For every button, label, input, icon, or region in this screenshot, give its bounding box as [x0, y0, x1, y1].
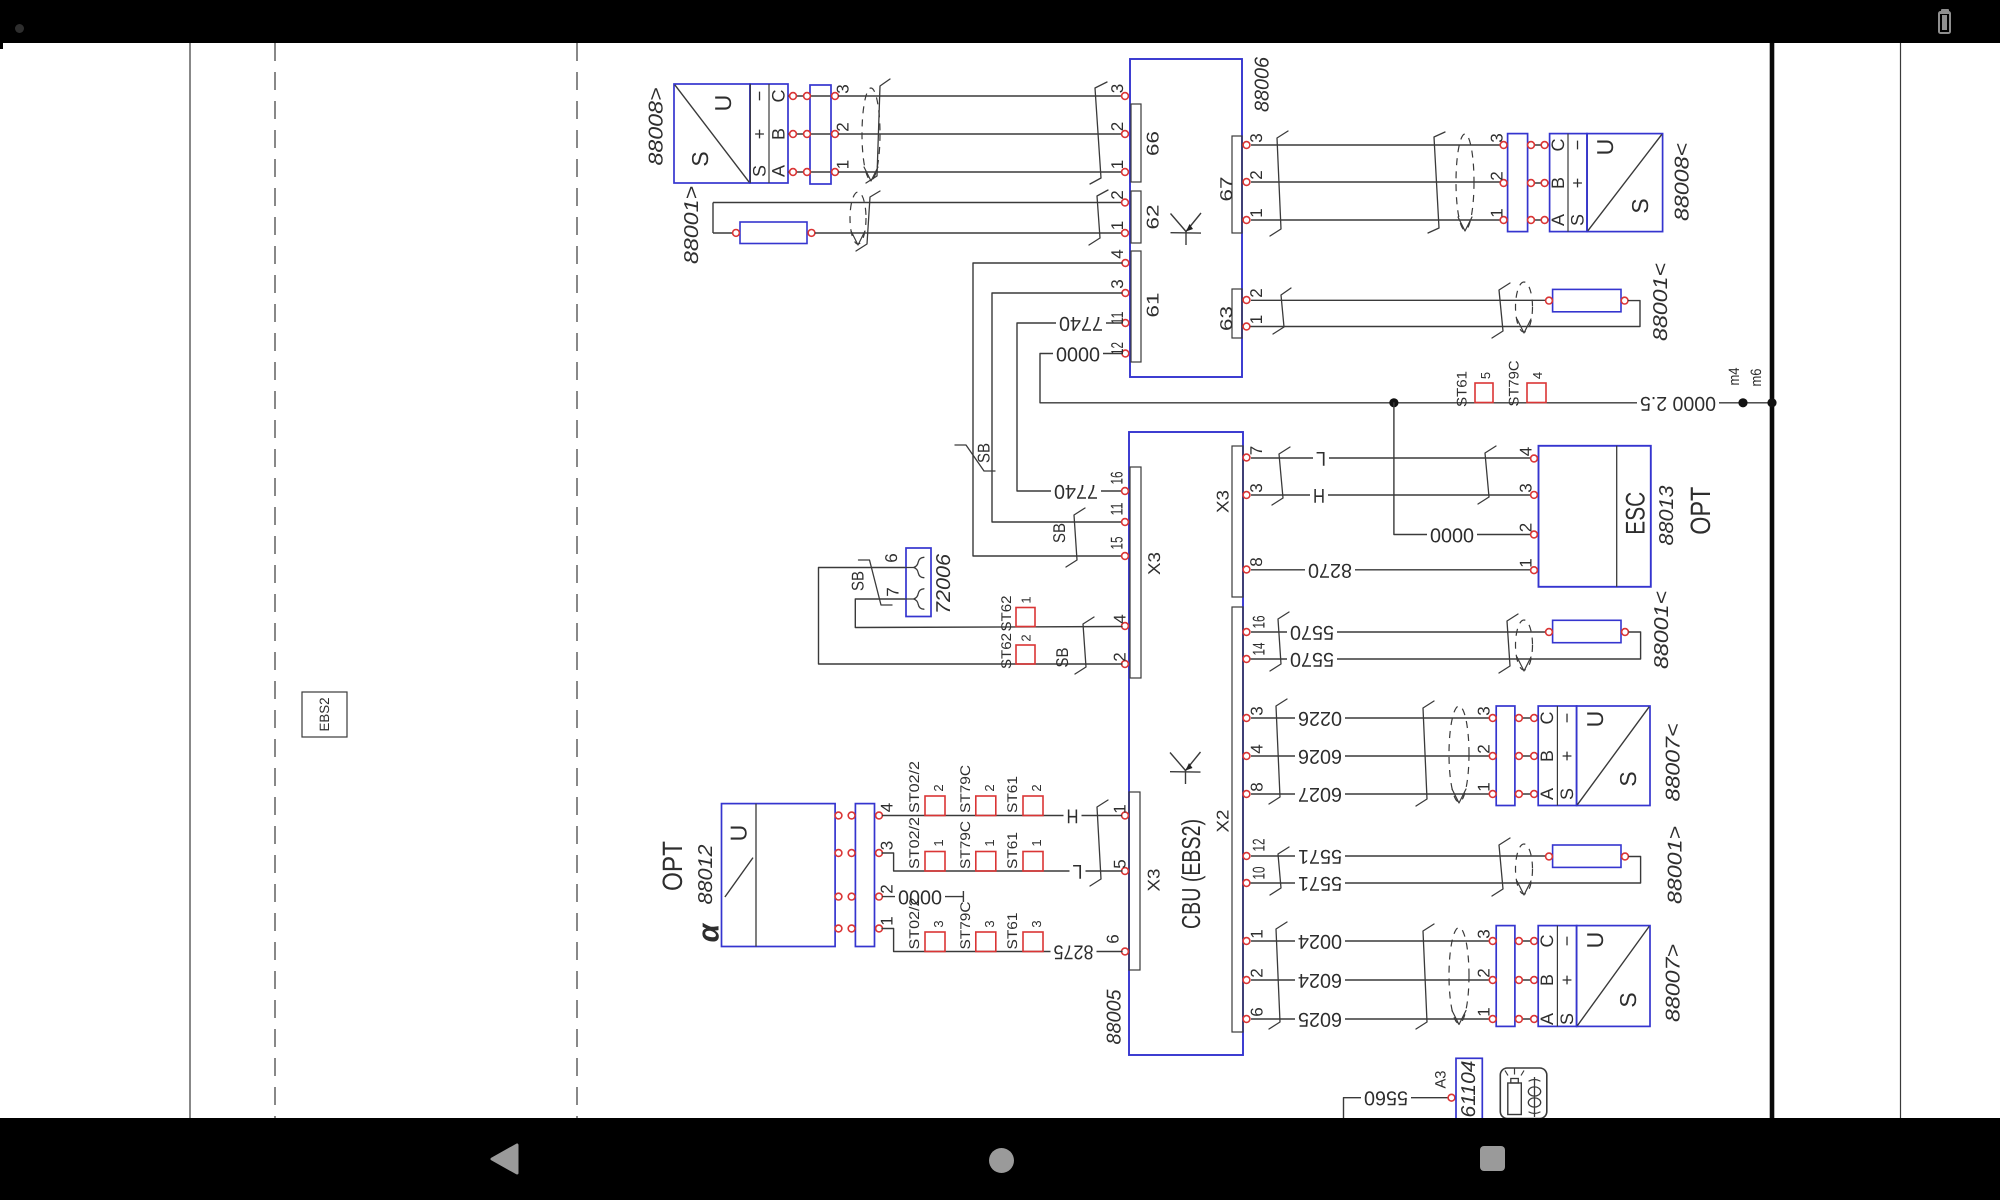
svg-text:1: 1	[834, 160, 853, 169]
wire 5571 (X2.12)	[1251, 855, 1545, 857]
cable bracket 88007> (sensor end)	[1416, 924, 1434, 1029]
connector marker ST79C pin4 on bus	[1527, 383, 1546, 403]
svg-text:88001>: 88001>	[681, 186, 703, 264]
pin label 3 (88008<)	[1488, 133, 1507, 142]
label ST79C (8275 wire)	[957, 902, 973, 950]
svg-text:3: 3	[1488, 133, 1507, 142]
svg-text:m6: m6	[1748, 369, 1765, 387]
wire 88008>.3 to 88006:66.3	[838, 95, 1122, 97]
wire label 0024	[1295, 930, 1345, 952]
wire label 0226	[1295, 707, 1345, 729]
cable bracket 5570 (module end)	[1270, 612, 1289, 671]
svg-text:U: U	[726, 825, 752, 842]
connector marker ST02/2 pin2 (H wire)	[925, 796, 945, 816]
wire 88001< loop return (63.1)	[1251, 301, 1640, 327]
sensor 88008< terminal strip	[1548, 134, 1588, 232]
label SB (72006)	[849, 571, 868, 591]
svg-text:B: B	[1537, 750, 1557, 762]
wire 67.2 to 88008<.2	[1251, 181, 1505, 183]
svg-text:S: S	[1557, 1013, 1577, 1025]
module CBU (EBS2) body	[1129, 432, 1243, 1055]
svg-text:6027: 6027	[1298, 783, 1342, 805]
wire SB (88006:61.3 to CBU:X3.11)	[992, 293, 1122, 522]
svg-text:88001<: 88001<	[1650, 263, 1672, 341]
pin label 67.1	[1247, 208, 1266, 217]
svg-text:1: 1	[1517, 558, 1536, 567]
label OPT (ESC)	[1685, 487, 1716, 535]
svg-text:88006: 88006	[1252, 56, 1274, 112]
svg-text:0000 2.5: 0000 2.5	[1640, 392, 1716, 414]
svg-text:ST62: ST62	[998, 633, 1014, 669]
svg-text:ST61: ST61	[1004, 912, 1020, 949]
wire L (88012.3 to CBU:X3.5)	[882, 853, 1122, 871]
cable bracket 5571 (loop end)	[1492, 838, 1510, 896]
terminal block 61104	[1456, 1058, 1482, 1124]
sensor 88008< connector plug	[1500, 134, 1549, 232]
svg-text:S: S	[1627, 198, 1653, 213]
svg-text:ST79C: ST79C	[957, 902, 973, 950]
break symbol SB on X3.15 riser	[955, 445, 995, 471]
pin label ESC.4	[1517, 447, 1536, 456]
svg-text:OPT: OPT	[657, 841, 688, 891]
label 88008>	[646, 88, 668, 166]
svg-text:8: 8	[1248, 782, 1267, 791]
svg-text:1: 1	[982, 839, 997, 846]
label CBU (EBS2)	[1176, 819, 1206, 929]
connector marker ST79C pin3 (8275 wire)	[976, 932, 996, 952]
pin label 2 (88012)	[878, 884, 897, 893]
svg-text:1: 1	[1108, 221, 1127, 230]
svg-text:−: −	[750, 91, 770, 102]
label ST61 (L wire)	[1004, 832, 1020, 869]
connector marker ST62 pin1	[1016, 608, 1035, 627]
page frame dashed separator B	[576, 43, 578, 1118]
svg-text:X3: X3	[1214, 490, 1233, 513]
pin label X2.12	[1250, 839, 1269, 852]
label alpha	[693, 922, 726, 942]
svg-text:4: 4	[878, 803, 897, 812]
pin label 1 (ST79C L)	[982, 839, 997, 846]
svg-text:B: B	[1548, 177, 1568, 189]
pin label X3.8	[1247, 557, 1266, 566]
wire label 0000 (61.12)	[1053, 343, 1103, 365]
cable bracket 88007> (module end)	[1269, 922, 1287, 1029]
label 88013	[1656, 486, 1678, 546]
cable shield 5571	[1516, 844, 1533, 895]
label 88012	[695, 845, 717, 905]
svg-text:2: 2	[878, 884, 897, 893]
svg-text:ESC: ESC	[1620, 492, 1650, 535]
pin label X2.10	[1250, 867, 1269, 880]
svg-text:U: U	[1582, 932, 1608, 949]
pin label X3.3	[1247, 483, 1266, 492]
pin label 5 (ST61)	[1478, 372, 1493, 379]
resistor 88001< (top loop)	[1546, 289, 1628, 311]
cable bracket 88007< (sensor end)	[1416, 701, 1434, 806]
cable shield 66	[862, 88, 880, 181]
sensor 88008> body (U/S speed sensor)	[674, 84, 750, 183]
symbol crossed arrow in 88006	[1171, 213, 1202, 245]
sensor 88008> connector plug	[788, 85, 838, 184]
label 88007<	[1663, 724, 1685, 802]
svg-text:63: 63	[1217, 306, 1236, 331]
pin label 3 (88007<)	[1475, 706, 1494, 715]
cable shield 88007<	[1449, 706, 1469, 803]
pin label 62.2	[1108, 190, 1127, 199]
page frame line (right border)	[1900, 43, 1902, 1118]
svg-text:2: 2	[1475, 744, 1494, 753]
resistor 88001< (mid loop)	[1546, 620, 1629, 642]
svg-text:S: S	[1615, 771, 1641, 786]
svg-text:6024: 6024	[1298, 969, 1342, 991]
svg-text:3: 3	[1108, 84, 1127, 93]
svg-text:1: 1	[1488, 208, 1507, 217]
svg-text:S: S	[750, 165, 770, 177]
cable shield 88007>	[1449, 928, 1469, 1025]
pin label 1 (88008<)	[1488, 208, 1507, 217]
svg-text:8: 8	[1247, 557, 1266, 566]
wire 88008>.2 to 88006:66.2	[838, 133, 1122, 135]
svg-text:67: 67	[1217, 177, 1236, 202]
svg-text:2: 2	[1247, 170, 1266, 179]
svg-text:3: 3	[931, 920, 946, 927]
sensor 88008> terminal strip (S + - / A B C)	[750, 84, 789, 183]
svg-text:3: 3	[1108, 279, 1127, 288]
sensor 88008< body	[1587, 134, 1663, 232]
svg-text:88008>: 88008>	[646, 88, 668, 166]
cable shield 5570	[1516, 620, 1533, 671]
pin label ESC.3	[1517, 483, 1536, 492]
buzzer 72006 body	[906, 548, 931, 617]
pin label 62.1	[1108, 221, 1127, 230]
cable bracket 5571 (module end)	[1270, 847, 1289, 895]
svg-text:A: A	[769, 165, 789, 177]
svg-text:S: S	[687, 151, 713, 166]
nav back button	[487, 1141, 523, 1177]
pin label 67.2	[1247, 170, 1266, 179]
wire label 7740 (upper)	[1056, 312, 1106, 334]
wire 6027 (X2.8 to 88007<.1)	[1251, 793, 1494, 795]
wire 8270 (CBU:X3.8 to ESC.1)	[1251, 569, 1530, 571]
wire 5570 return (X2.14)	[1251, 632, 1641, 659]
connector marker ST61 pin3 (8275 wire)	[1023, 932, 1043, 952]
connector marker ST61 pin2 (H wire)	[1023, 796, 1043, 816]
svg-text:U: U	[1582, 711, 1608, 728]
label ST79C (H wire)	[957, 765, 973, 813]
connector marker ST02/2 pin1 (L wire)	[925, 852, 945, 872]
svg-text:−: −	[1557, 713, 1577, 724]
svg-text:8275: 8275	[1054, 941, 1094, 963]
svg-text:X3: X3	[1145, 552, 1164, 575]
pin label 4 (ST79C)	[1530, 372, 1545, 379]
svg-text:C: C	[769, 90, 789, 103]
pin label 2 (ST62)	[1019, 634, 1034, 641]
cable bracket 66 (connector end)	[1090, 82, 1107, 184]
wire 67.1 to 88008<.1	[1251, 219, 1505, 221]
pin label 67.3	[1247, 133, 1266, 142]
connector strip X3 of CBU (upper left)	[1122, 467, 1164, 678]
pin label X3.7	[1247, 446, 1266, 455]
svg-text:H: H	[1067, 805, 1079, 827]
junction node m4	[1738, 398, 1747, 407]
pin label 61.11	[1108, 312, 1127, 325]
cable bracket 88007< (module end)	[1269, 699, 1287, 804]
wire label 5560	[1361, 1087, 1411, 1109]
label OPT (88012)	[657, 841, 688, 891]
pin label 66.1	[1108, 160, 1127, 169]
svg-text:m4: m4	[1726, 368, 1743, 386]
connector marker ST61 pin5 on bus	[1475, 383, 1493, 403]
pin label 4 (88012)	[878, 803, 897, 812]
break symbol SB on X3.4/2 wires	[1075, 617, 1094, 674]
label SB (X3.11/15)	[1050, 523, 1069, 543]
wire 88001> loop bottom	[815, 232, 1122, 234]
pin label X2.16	[1250, 616, 1269, 629]
pin label 1 (88012)	[878, 916, 897, 925]
cable bracket 63 (module end)	[1273, 288, 1291, 334]
label 88001< (mid)	[1651, 591, 1673, 669]
svg-text:1: 1	[1247, 208, 1266, 217]
label ST02/2 (L wire)	[906, 817, 922, 869]
wire 0000 stub (88012.2)	[882, 891, 963, 902]
svg-text:2: 2	[1029, 784, 1044, 791]
pin label 63.2	[1247, 288, 1266, 297]
wire 72006.7 to CBU:X3.4	[855, 599, 1122, 628]
svg-text:ST61: ST61	[1004, 832, 1020, 869]
system label box EBS2	[302, 692, 347, 737]
svg-text:S: S	[1557, 788, 1577, 800]
label m6	[1748, 369, 1765, 387]
svg-text:EBS2: EBS2	[317, 698, 332, 732]
label 88007>	[1663, 944, 1685, 1022]
cable bracket 62 (loop end)	[856, 191, 880, 251]
wire label 7740 (lower)	[1051, 480, 1101, 502]
svg-text:H: H	[1313, 484, 1325, 506]
nav home button	[989, 1148, 1014, 1173]
label SB (X3.4/2)	[1053, 648, 1072, 668]
svg-text:66: 66	[1144, 131, 1163, 156]
svg-text:ST61: ST61	[1454, 371, 1470, 407]
svg-text:88008<: 88008<	[1672, 143, 1694, 221]
label 88008<	[1672, 143, 1694, 221]
svg-text:62: 62	[1144, 205, 1163, 230]
wire label 5571 (upper)	[1295, 845, 1345, 867]
wire 0000 (bus to ESC.2)	[1394, 403, 1530, 535]
svg-text:1: 1	[1111, 804, 1130, 813]
cable bracket H/L (CBU end)	[1090, 800, 1108, 886]
svg-text:A: A	[1537, 1013, 1557, 1025]
svg-text:88007>: 88007>	[1663, 944, 1685, 1022]
svg-text:6: 6	[882, 553, 901, 562]
svg-text:5570: 5570	[1290, 621, 1334, 643]
svg-text:15: 15	[1108, 537, 1127, 550]
pin label X3.15	[1108, 537, 1127, 550]
svg-text:U: U	[710, 95, 736, 112]
svg-text:2: 2	[931, 784, 946, 791]
cable bracket L/H (CBU end)	[1272, 447, 1290, 505]
connector strip 63 of 88006	[1217, 289, 1250, 338]
sensor 88007> connector plug	[1489, 926, 1538, 1027]
svg-text:88012: 88012	[695, 845, 717, 905]
sensor 88007< body	[1577, 706, 1650, 806]
svg-text:2: 2	[1108, 190, 1127, 199]
svg-text:10: 10	[1250, 867, 1269, 880]
pin label X2.2	[1248, 968, 1267, 977]
svg-text:3: 3	[1475, 706, 1494, 715]
cable bracket L/H (ESC end)	[1478, 446, 1496, 504]
svg-text:0226: 0226	[1298, 707, 1342, 729]
wire H (CBU:X3.3 to ESC.3)	[1251, 494, 1530, 496]
pin label 2 (88008> pin2)	[834, 122, 853, 131]
cable shield 62	[850, 192, 866, 245]
label ST61 (H wire)	[1004, 776, 1020, 813]
wire label 0000 2.5 (ground bus)	[1637, 392, 1719, 414]
svg-text:S: S	[1568, 214, 1588, 226]
wire 0000 (88006:61.12 to ground bus)	[1040, 354, 1770, 403]
svg-text:5570: 5570	[1290, 648, 1334, 670]
svg-text:3: 3	[1247, 483, 1266, 492]
resistor 88001> (sensor loop)	[733, 222, 815, 244]
label ST79C (bus)	[1506, 361, 1522, 407]
cable bracket 5570 (loop end)	[1499, 614, 1518, 673]
svg-text:L: L	[1073, 860, 1083, 882]
pin label X2.8	[1248, 782, 1267, 791]
wire 88001< loop top (63.2)	[1251, 299, 1545, 301]
wire label 6027	[1295, 783, 1345, 805]
connector marker ST79C pin2 (H wire)	[976, 796, 996, 816]
svg-text:3: 3	[834, 84, 853, 93]
wire label 5570 (lower)	[1287, 648, 1337, 670]
page frame line (left border)	[189, 43, 191, 1118]
svg-text:+: +	[1557, 975, 1577, 986]
pin label 3 (88007>)	[1475, 929, 1494, 938]
pin label 1 (88008> pin1)	[834, 160, 853, 169]
wire 6025 (X2.6 to 88007>.1)	[1251, 1018, 1494, 1020]
navigation bar (bottom)	[0, 1118, 2000, 1200]
pin label 7 (72006)	[884, 587, 903, 596]
pin label 63.1	[1247, 315, 1266, 324]
ground rail m6 (thick bus line)	[1770, 43, 1775, 1118]
svg-text:61104: 61104	[1458, 1061, 1480, 1118]
svg-text:1: 1	[1029, 839, 1044, 846]
svg-text:88013: 88013	[1656, 486, 1678, 546]
svg-text:3: 3	[878, 841, 897, 850]
svg-text:14: 14	[1250, 643, 1269, 656]
svg-text:3: 3	[1029, 920, 1044, 927]
svg-text:ST79C: ST79C	[957, 765, 973, 813]
cable shield 63	[1516, 282, 1533, 333]
connector marker ST61 pin1 (L wire)	[1023, 852, 1043, 872]
svg-text:SB: SB	[1053, 648, 1072, 668]
connector strip X3 of CBU (right)	[1214, 446, 1250, 597]
svg-text:16: 16	[1108, 472, 1127, 485]
pin label X2.3	[1248, 706, 1267, 715]
pin label 2 (ST02/2 H)	[931, 784, 946, 791]
pin label 1 (88007>)	[1475, 1007, 1494, 1016]
svg-text:2: 2	[834, 122, 853, 131]
break symbol SB at 72006	[859, 560, 893, 605]
svg-text:2: 2	[982, 784, 997, 791]
wire label H	[1310, 484, 1328, 506]
pin label 2 (88007<)	[1475, 744, 1494, 753]
label 88001< (top)	[1650, 263, 1672, 341]
svg-text:A: A	[1548, 214, 1568, 226]
svg-text:0000: 0000	[1056, 343, 1100, 365]
svg-text:ST61: ST61	[1004, 776, 1020, 813]
svg-text:1: 1	[1019, 596, 1034, 603]
svg-text:72006: 72006	[933, 553, 955, 614]
notification dot	[15, 24, 24, 33]
svg-text:A: A	[1537, 788, 1557, 800]
resistor 88001> (low loop)	[1546, 845, 1629, 867]
svg-text:ST02/2: ST02/2	[906, 897, 922, 949]
wire label 0000 (88012)	[895, 886, 945, 908]
svg-text:X2: X2	[1214, 810, 1233, 833]
connector strip 66 of 88006	[1122, 93, 1163, 182]
pin label ESC.1	[1517, 558, 1536, 567]
pin label 6 (72006)	[882, 553, 901, 562]
svg-text:5: 5	[1111, 859, 1130, 868]
svg-text:8270: 8270	[1308, 559, 1352, 581]
wire label 6026	[1295, 745, 1345, 767]
pin label X3.2	[1111, 652, 1130, 661]
wire label 6024	[1295, 969, 1345, 991]
svg-text:S: S	[1615, 992, 1641, 1007]
pin label 1 (ST02/2 L)	[931, 839, 946, 846]
wire 8275 (88012.1 to CBU:X3.6)	[882, 929, 1122, 952]
cable bracket 67 (sensor end)	[1428, 132, 1445, 233]
pin label 61.3	[1108, 279, 1127, 288]
warning pictogram (battery/no flame)	[1500, 1068, 1547, 1119]
svg-text:6026: 6026	[1298, 745, 1342, 767]
pin label A3	[1433, 1071, 1450, 1089]
wire label L (88012)	[1070, 860, 1086, 882]
pin label 2 (ST61 H)	[1029, 784, 1044, 791]
svg-text:1: 1	[1475, 782, 1494, 791]
wire 88008>.1 to 88006:66.1	[838, 171, 1122, 173]
pin label X3.4	[1111, 614, 1130, 623]
label 72006	[933, 553, 955, 614]
pin label 61.4	[1108, 249, 1127, 258]
svg-text:5571: 5571	[1298, 845, 1342, 867]
wire label 5571 (lower)	[1295, 872, 1345, 894]
connector strip X3 of CBU (lower left)	[1122, 792, 1164, 970]
wire 5570 (X2.16)	[1251, 631, 1545, 633]
svg-text:3: 3	[1248, 706, 1267, 715]
label ST02/2 (8275 wire)	[906, 897, 922, 949]
svg-text:2: 2	[1247, 288, 1266, 297]
label ST62 (pin2)	[998, 633, 1014, 669]
svg-text:16: 16	[1250, 616, 1269, 629]
svg-text:5571: 5571	[1298, 872, 1342, 894]
wire 88001> loop top	[713, 203, 1122, 234]
battery icon	[1941, 9, 1949, 12]
svg-text:6: 6	[1248, 1007, 1267, 1016]
svg-text:3: 3	[982, 920, 997, 927]
status bar (top)	[0, 0, 2000, 43]
svg-text:4: 4	[1530, 372, 1545, 379]
svg-text:4: 4	[1111, 614, 1130, 623]
pin label 1 (88007<)	[1475, 782, 1494, 791]
pin label X3.16	[1108, 472, 1127, 485]
svg-text:ST02/2: ST02/2	[906, 761, 922, 813]
break symbol SB on X3.11/15 wires	[1066, 508, 1085, 567]
pin label X2.6	[1248, 1007, 1267, 1016]
pin label 2 (88007>)	[1475, 968, 1494, 977]
svg-text:ST62: ST62	[998, 595, 1014, 631]
svg-text:−: −	[1568, 140, 1588, 151]
svg-text:0000: 0000	[1430, 524, 1474, 546]
